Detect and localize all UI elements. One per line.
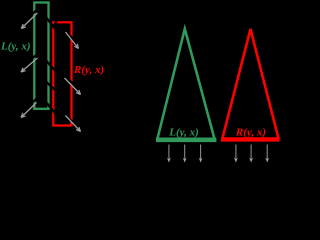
red triangle thick base [221,137,280,141]
arrow B3 (black + gray shadow, pointing down-right) [66,114,81,130]
arrow A1 (black + gray shadow, pointing down-left) [21,9,37,25]
red CNN triangle [222,29,279,139]
green CNN triangle [157,29,215,140]
output arrow 2 under red triangle [250,145,252,161]
output arrow 1 under green triangle [168,145,170,161]
correspondence line D3 (black) [45,81,57,92]
output arrow 2 under green triangle [184,145,186,161]
black notch at red rectangle top-left corner [53,21,57,27]
output arrow 1 under red triangle [235,145,237,161]
correspondence line D4 (black) [45,101,57,115]
svg-text:R(y, x): R(y, x) [73,64,104,76]
left image band (green rectangle) [34,3,48,109]
right image band (red rectangle) [53,22,71,125]
svg-text:L(y, x): L(y, x) [0,41,31,53]
arrow A3 (black + gray shadow, pointing down-left) [21,99,37,114]
arrow B1 (black + gray shadow, pointing down-right) [66,30,79,47]
arrow B2 (black + gray shadow, pointing down-right) [65,75,81,92]
output arrow 3 under red triangle [266,145,268,161]
svg-text:L(y, x): L(y, x) [168,127,199,139]
green triangle thick base [156,138,216,143]
svg-text:R(y, x): R(y, x) [235,127,266,139]
arrow A2 (black + gray shadow, pointing down-left) [21,54,38,68]
output arrow 3 under green triangle [200,145,202,161]
correspondence line D1 (black) [45,16,57,31]
correspondence line D2 (black) [45,60,57,73]
